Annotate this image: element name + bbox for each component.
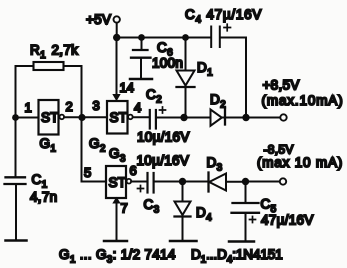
- inverter G1: [39, 100, 65, 135]
- svg-text:5: 5: [84, 165, 91, 180]
- wire C3 to node B: [155, 181, 183, 183]
- svg-text:4,7n: 4,7n: [30, 190, 57, 205]
- capacitor C1: [5, 177, 26, 239]
- svg-text:2: 2: [66, 99, 73, 114]
- node +5V/pin14 junction: [113, 34, 120, 41]
- svg-text:10µ/16V: 10µ/16V: [137, 130, 190, 145]
- wire G3 output to C3: [131, 181, 147, 183]
- capacitor C2: [150, 107, 166, 129]
- svg-text:ST: ST: [41, 110, 59, 125]
- capacitor C5: [232, 182, 260, 241]
- svg-text:3: 3: [93, 98, 100, 113]
- inverter G2: [107, 101, 133, 134]
- svg-text:(max.10mA): (max.10mA): [262, 93, 344, 108]
- wire left rail: [15, 66, 17, 177]
- wire node A to D2: [184, 117, 211, 119]
- pin 14 arrow into G2: [112, 94, 120, 101]
- node -8.5 junction: [242, 178, 249, 185]
- ground (pin 7): [104, 240, 127, 243]
- svg-text:4: 4: [134, 100, 141, 115]
- svg-text:47µ/16V: 47µ/16V: [261, 213, 314, 228]
- svg-text:100n: 100n: [152, 56, 183, 71]
- svg-text:7: 7: [121, 201, 128, 216]
- node A junction: [180, 114, 187, 121]
- ground (D4): [170, 240, 197, 243]
- diode D1: [177, 38, 195, 118]
- wire +8.5V output: [246, 117, 281, 119]
- wire C4 right to +out corner: [221, 38, 246, 118]
- diode D4: [175, 202, 191, 241]
- diode D3: [209, 173, 246, 192]
- capacitor C4: [211, 24, 230, 47]
- capacitor C3: [138, 173, 154, 193]
- wire -8.5V output: [246, 181, 281, 183]
- ground (C6): [130, 78, 152, 81]
- svg-text:+8,5V: +8,5V: [263, 77, 300, 92]
- ground (C1): [6, 239, 27, 242]
- node pin1 junction: [12, 114, 19, 121]
- wire G2 output to C2: [133, 116, 149, 118]
- wire G1 output to pin2 node: [64, 116, 107, 118]
- wire node B down to D4: [182, 182, 184, 202]
- svg-text:1: 1: [25, 100, 32, 115]
- ground (C5): [229, 240, 254, 243]
- wire node B to D3: [183, 181, 209, 183]
- capacitor C6: [131, 38, 151, 78]
- svg-text:+5V: +5V: [86, 12, 111, 27]
- node D1/C4 junction: [182, 34, 189, 41]
- svg-text:14: 14: [120, 80, 134, 95]
- wire +5V rail: [117, 37, 211, 39]
- svg-text:ST: ST: [110, 110, 128, 125]
- inverter G3: [106, 166, 131, 198]
- node B junction: [179, 178, 186, 185]
- wire R1 left: [16, 65, 34, 67]
- svg-text:10µ/16V: 10µ/16V: [137, 153, 190, 168]
- wire pin2 node down to G3 pin5: [82, 66, 107, 182]
- wire pin 7: [116, 198, 118, 240]
- node pin2 junction: [78, 114, 85, 121]
- resistor R1: [30, 43, 78, 71]
- diode D2: [211, 109, 247, 126]
- svg-text:ST: ST: [109, 175, 127, 190]
- wire C2 to node A: [157, 117, 184, 119]
- wire R1 right to pin2 node: [64, 65, 82, 67]
- C6 value labels: [152, 40, 183, 71]
- +8.5V terminal: [280, 114, 286, 120]
- node +8.5 junction: [242, 114, 249, 121]
- -8.5V terminal: [280, 178, 286, 184]
- supply +5V terminal: [86, 12, 120, 38]
- svg-text:(max 10 mA): (max 10 mA): [257, 155, 343, 170]
- wire pin 1: [16, 117, 39, 119]
- pin 7 arrow into G3: [112, 197, 120, 204]
- wire pin 14 line: [116, 38, 118, 96]
- node C6 junction: [138, 34, 145, 41]
